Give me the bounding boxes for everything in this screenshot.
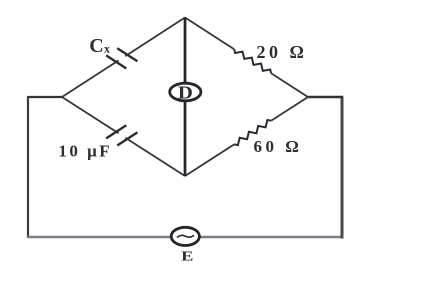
- detector D (galvanometer): [170, 82, 201, 102]
- wire: capacitor C2 lower plate to bottom node D: [125, 138, 185, 176]
- resistor R1 20 ohm zigzag: [234, 49, 271, 73]
- svg-text:20 Ω: 20 Ω: [257, 42, 308, 62]
- svg-text:C: C: [89, 35, 103, 57]
- capacitor C2 (10 uF) plate 2: [117, 132, 137, 145]
- wire: left vertical side of outer loop: [27, 96, 29, 238]
- svg-text:D: D: [178, 82, 193, 102]
- wire: bottom side of outer loop: [27, 236, 343, 239]
- label E: [181, 249, 193, 264]
- label 60 ohm: [254, 137, 303, 156]
- wire: resistor R2 to right node C: [271, 97, 308, 121]
- wire: bottom node D to resistor R2: [185, 144, 234, 176]
- source E (AC source symbol): [171, 227, 199, 245]
- wire: right horizontal stub from node C to outer loop: [308, 96, 343, 98]
- wire: right vertical side of outer loop: [341, 97, 344, 239]
- capacitor Cx plate 1: [106, 55, 126, 68]
- svg-text:60 Ω: 60 Ω: [254, 137, 303, 156]
- wire: left horizontal stub from outer loop to node A: [27, 96, 62, 98]
- wire: node A to capacitor C2 upper plate: [62, 97, 119, 133]
- resistor R2 60 ohm zigzag: [234, 120, 271, 145]
- wire: capacitor Cx upper plate to top node B: [125, 18, 185, 57]
- capacitor C2 (10 uF) plate 1: [106, 125, 126, 138]
- svg-text:10 μF: 10 μF: [58, 141, 112, 160]
- capacitor Cx plate 2: [117, 48, 137, 61]
- label Cx: [89, 35, 110, 57]
- wire: resistor R1 to right node C: [271, 73, 308, 97]
- label 20 ohm: [257, 42, 308, 62]
- svg-text:x: x: [104, 41, 110, 55]
- wire: top node B to resistor R1: [185, 18, 234, 50]
- svg-text:E: E: [181, 249, 193, 264]
- wire: galvanometer branch top node B to bottom node D: [184, 18, 187, 177]
- wire: arm node A to capacitor Cx lower plate: [62, 60, 119, 97]
- label 10 uF: [58, 141, 112, 160]
